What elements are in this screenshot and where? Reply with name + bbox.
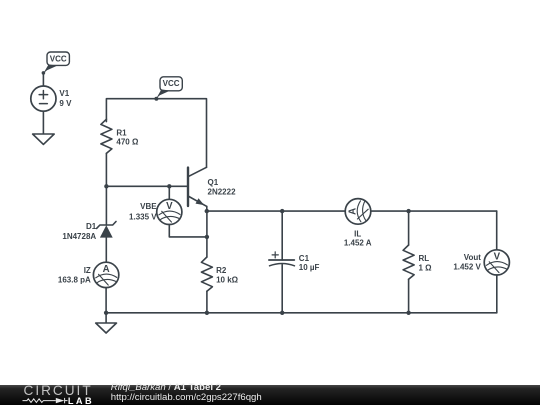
svg-text:VBE: VBE (140, 202, 157, 211)
node C1 top (280, 209, 284, 213)
resistor R1 (101, 119, 112, 153)
svg-text:LAB: LAB (68, 396, 94, 405)
wire VCC flag to V1 top (42, 73, 44, 86)
wire base rail to D1 (105, 186, 107, 225)
wire emitter rail (left of IL) (207, 210, 345, 212)
label R1 470 Ω (116, 128, 139, 146)
svg-text:163.8 pA: 163.8 pA (58, 276, 91, 285)
svg-text:RL: RL (419, 254, 430, 263)
svg-text:D1: D1 (86, 222, 97, 231)
svg-text:1 Ω: 1 Ω (419, 263, 433, 272)
CircuitLab logo (0, 385, 110, 405)
wire RL top lead (408, 211, 410, 245)
label RL 1 Ω (419, 254, 433, 273)
label C1 10 µF (299, 254, 320, 272)
svg-text:10 kΩ: 10 kΩ (216, 275, 239, 284)
node emitter (205, 209, 209, 213)
label D1 1N4728A (62, 222, 96, 241)
net flag VCC (at V1) (42, 52, 70, 75)
svg-text:1.335 V: 1.335 V (129, 212, 157, 221)
voltmeter VBE (157, 199, 182, 224)
footer url text (111, 393, 262, 403)
svg-text:1N4728A: 1N4728A (62, 232, 96, 241)
svg-text:10 µF: 10 µF (299, 263, 320, 272)
capacitor C1 (269, 252, 295, 266)
label V1 9 V (59, 89, 72, 108)
wire Vout top lead (496, 211, 498, 250)
node RL bottom (406, 311, 410, 315)
label Q1 2N2222 (208, 178, 237, 197)
wire bottom rail (106, 312, 497, 314)
wire D1 to IZ meter (105, 238, 107, 263)
wire Vout bottom lead (496, 275, 498, 313)
label VBE 1.335 V (129, 202, 157, 221)
label Vout 1.452 V (453, 253, 481, 272)
wire base to VBE meter (168, 186, 170, 199)
wire R2 top lead (206, 237, 208, 257)
voltmeter Vout (484, 250, 509, 275)
node R2 bottom (205, 311, 209, 315)
wire R2 bottom lead (206, 291, 208, 313)
label IL 1.452 A (344, 230, 372, 248)
svg-text:2N2222: 2N2222 (208, 187, 237, 196)
wire VBE bottom to R2 top junction (169, 225, 207, 237)
ammeter IZ (93, 262, 118, 287)
svg-text:1.452 V: 1.452 V (453, 263, 481, 272)
wire IZ to bottom rail (105, 288, 107, 313)
resistor R2 (201, 257, 212, 291)
svg-text:470 Ω: 470 Ω (116, 137, 139, 146)
svg-text:VCC: VCC (163, 79, 180, 88)
zener diode D1 (97, 222, 116, 238)
wire C1 top lead (281, 211, 283, 260)
node RL top (406, 209, 410, 213)
resistor RL (403, 245, 414, 279)
svg-text:IL: IL (354, 230, 361, 239)
svg-text:Q1: Q1 (208, 178, 219, 187)
wire RL bottom lead (408, 279, 410, 313)
svg-text:9 V: 9 V (59, 99, 72, 108)
footer bar (0, 385, 540, 405)
net flag VCC (top rail) (154, 77, 182, 101)
svg-text:V1: V1 (59, 89, 69, 98)
voltage source V1 (31, 86, 56, 111)
wire top rail VCC (106, 99, 206, 168)
svg-text:1.452 A: 1.452 A (344, 238, 372, 247)
wire base rail (106, 185, 188, 187)
svg-text:C1: C1 (299, 254, 310, 263)
svg-text:R2: R2 (216, 266, 227, 275)
node C1 bottom (280, 311, 284, 315)
wire C1 bottom lead (281, 265, 283, 313)
node VBE/R2/emitter junction (205, 235, 209, 239)
ammeter IL (rotated) (345, 199, 371, 225)
node R1/D1/base junction (104, 184, 108, 188)
wire emitter down to VBE/R2 junction (206, 211, 208, 237)
wire R1 bottom to base rail (105, 153, 107, 186)
svg-text:Vout: Vout (464, 253, 482, 262)
node base/VBE junction (167, 184, 171, 188)
node bottom-left junction (104, 311, 108, 315)
label R2 10 kΩ (216, 266, 239, 285)
svg-text:R1: R1 (116, 128, 127, 137)
svg-text:IZ: IZ (84, 266, 91, 275)
ground (V1) (33, 134, 55, 144)
footer title text (111, 383, 221, 393)
wire V1 bottom to ground (42, 111, 44, 134)
transistor Q1 (188, 167, 207, 211)
wire emitter rail (right of IL) (371, 210, 497, 212)
ground (bottom) (96, 323, 117, 333)
svg-text:VCC: VCC (50, 54, 67, 63)
label IZ 163.8 pA (58, 266, 91, 285)
wire to ground (105, 313, 107, 323)
